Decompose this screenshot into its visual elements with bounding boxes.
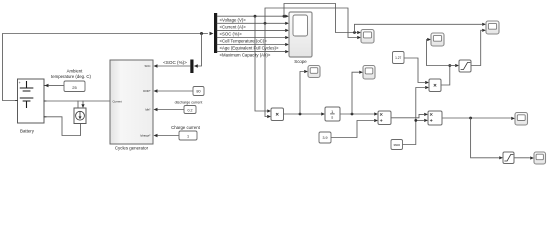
wire battery minus loop to source bottom <box>44 117 81 136</box>
node voltage branch 1 <box>254 15 257 18</box>
integrator 1/s <box>325 107 340 121</box>
divide1 <box>378 111 391 125</box>
svg-text:SOC: SOC <box>144 64 150 68</box>
divide2 <box>428 111 442 125</box>
constant 3.9 <box>319 132 331 143</box>
wire down to saturation2 <box>471 118 499 158</box>
wire saturation1 out up to scope4 port2 <box>471 30 482 65</box>
constant 1.27 <box>393 52 405 64</box>
wire SOC into cycles generator <box>158 65 190 67</box>
wire ambient temp const to battery <box>49 85 64 87</box>
svg-text:<Voltage (V)>: <Voltage (V)> <box>220 17 247 22</box>
svg-text:1: 1 <box>187 134 189 138</box>
svg-text:discharge current: discharge current <box>175 100 203 104</box>
node EFC branch <box>469 117 472 120</box>
node current branch <box>264 22 267 25</box>
product2 <box>429 79 441 92</box>
svg-text:<Age (Equivalent Full Cycles)>: <Age (Equivalent Full Cycles)> <box>220 46 279 51</box>
scope4b (EFC) <box>515 113 528 126</box>
constant 1 charge current <box>179 131 197 140</box>
node saturation junction <box>448 64 451 67</box>
wire voltage down to product1 port1 <box>255 16 267 111</box>
wire const 3.9 to divide1 port2 <box>331 121 374 138</box>
svg-text:Idis*: Idis* <box>145 108 151 112</box>
svg-text:Battery: Battery <box>20 129 35 134</box>
arrows into scope <box>285 15 289 54</box>
svg-text:Scope: Scope <box>294 59 307 64</box>
saturation2 <box>503 152 514 164</box>
wire const 1.27 to product2 port1 <box>404 58 425 83</box>
wire voltage long line to scope4 port1 <box>355 24 482 32</box>
wire power up to scope2 <box>300 72 304 115</box>
svg-text:temperature (deg. C): temperature (deg. C) <box>51 74 91 79</box>
svg-text:DOD*: DOD* <box>143 89 151 93</box>
svg-text:<Current (A)>: <Current (A)> <box>220 24 247 29</box>
scope4 (top right) <box>486 21 499 34</box>
battery port ticks <box>16 86 47 117</box>
wire product1 out to integrator <box>284 113 321 115</box>
constant 25 (ambient temperature) <box>64 81 85 92</box>
wire voltage up over scope to scope1 port1 <box>284 4 357 33</box>
wire charge current const into cycles generator <box>158 135 179 137</box>
wire Ah up to scope3 <box>352 72 359 114</box>
saturation1 <box>459 60 471 72</box>
node Ah branch to scope3 <box>351 113 354 116</box>
svg-text:Cycles generator: Cycles generator <box>115 146 149 151</box>
wire divide2 out to scope4b <box>442 117 511 119</box>
wire current down to product1 port2 <box>265 23 267 116</box>
svg-text:<Maximum Capacity (Ah)>: <Maximum Capacity (Ah)> <box>220 53 271 58</box>
svg-text:Current: Current <box>113 99 123 103</box>
signal wires rows 1-6 bus selector to scope <box>217 16 285 51</box>
cycles generator subsystem <box>110 60 153 144</box>
bus selector U1 (black bar) <box>214 13 217 53</box>
wire source signal pin <box>82 101 84 104</box>
wire current up to scope1 port2 <box>265 8 357 38</box>
wire integrator out to divide1 <box>340 113 374 115</box>
scope3 (Ah) <box>363 66 375 80</box>
scope1 (voltage+current) <box>361 30 374 44</box>
svg-text:3.9: 3.9 <box>323 136 328 140</box>
svg-text:Icharge*: Icharge* <box>140 134 151 138</box>
svg-text:s: s <box>331 115 333 120</box>
svg-text:3600: 3600 <box>393 143 400 147</box>
node bus junction <box>200 32 203 35</box>
node power branch to scope2 <box>299 113 302 116</box>
wire saturation2 out to scope5 <box>514 157 530 159</box>
product1 (V x I) <box>271 108 284 121</box>
svg-text:25: 25 <box>72 85 77 90</box>
svg-text:+: + <box>19 81 21 85</box>
arrow into small selector <box>194 64 198 67</box>
wire m-bus from battery left port up and across to bus selector <box>3 34 208 101</box>
wire SOC feedback down from bus junction to small selector <box>198 34 202 67</box>
scope2 (power) <box>308 66 320 78</box>
svg-text:Ambient: Ambient <box>67 69 84 74</box>
svg-text:Charge current: Charge current <box>171 125 200 130</box>
svg-text:1.27: 1.27 <box>395 56 401 60</box>
svg-text:<SOC (%)>: <SOC (%)> <box>220 32 243 37</box>
node voltage branch 2 <box>283 15 286 18</box>
svg-text:0.2: 0.2 <box>188 108 193 112</box>
wire divide1 out to divide2 port1 <box>391 114 424 117</box>
controlled current source <box>74 108 86 124</box>
svg-text:<Cell Temperature (oC)>: <Cell Temperature (oC)> <box>220 39 268 44</box>
constant 0.2 discharge current <box>184 106 196 114</box>
node scope1 port1 branch <box>353 31 356 34</box>
battery block <box>18 79 45 123</box>
scope (main, 6 inputs) <box>289 12 312 57</box>
wire junction right to saturation1 <box>450 65 455 67</box>
svg-text:80: 80 <box>196 90 200 94</box>
arrow into bus selector <box>210 32 214 35</box>
scope5 <box>534 152 546 164</box>
scopeE <box>431 33 444 46</box>
wire DOD const into cycles generator <box>158 90 193 92</box>
constant 3600 <box>391 140 403 150</box>
wire battery plus rail to cycles generator current port <box>44 100 110 102</box>
wire junction left and up to scopeE <box>427 40 450 66</box>
wire const 3600 up to divide2 port2 and product2 port2 <box>403 88 425 145</box>
wire discharge current const into cycles generator <box>158 109 184 111</box>
wire source + pin <box>77 101 79 108</box>
wire product2 out up to saturation junction <box>441 66 450 86</box>
bus selector U2 (flipped, black bar) <box>190 60 193 74</box>
constant 80 <box>193 87 204 96</box>
svg-text:<SOC (%)>: <SOC (%)> <box>163 60 187 65</box>
battery symbol <box>20 82 33 108</box>
